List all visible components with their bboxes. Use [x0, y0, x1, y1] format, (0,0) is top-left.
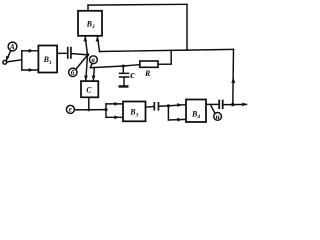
- junction dot at output: [231, 103, 234, 106]
- node v: circled letter v test point with tick to RC wire: [90, 55, 98, 68]
- wire: branch down into C block right input (arrow down): [92, 68, 96, 81]
- wire: upper arrow into B1: [22, 49, 38, 53]
- junction dot at stem and lower wire: [87, 109, 90, 112]
- svg-text:б: б: [71, 68, 75, 77]
- wire: upper arrow into B4: [168, 103, 185, 107]
- capacitor: coupling cap after B1: [67, 47, 72, 59]
- wire: upper arrow into B3: [106, 102, 123, 106]
- wire: lower arrow into B4: [168, 118, 185, 122]
- svg-text:н: н: [216, 112, 220, 121]
- wire: R right side up to feedback wire: [158, 50, 171, 64]
- node a: circled letter a (signal source label): [8, 42, 17, 51]
- resistor R: [140, 61, 158, 78]
- wire: loop vertical x=187 up to top: [186, 4, 188, 50]
- wire: node up into B2 (arrow up): [83, 36, 87, 55]
- wire: top horizontal to B2: [88, 3, 187, 6]
- wire: lower wire from node g to B3 fork: [74, 109, 106, 111]
- wire: B4 fork vertical: [167, 106, 169, 120]
- node g: circled letter g test point at lower wire start: [66, 105, 74, 114]
- wire: lower arrow into B3: [106, 115, 123, 119]
- svg-text:С: С: [86, 86, 92, 95]
- junction dot at B3 fork: [104, 108, 107, 111]
- wire: input terminal to fork: [7, 60, 22, 62]
- wire: lower arrow into B1: [22, 68, 38, 72]
- capacitor C to ground: [119, 66, 135, 85]
- node n: circled letter n test point with tick to output wire: [211, 105, 222, 121]
- wire: B1 output to coupling capacitor: [57, 52, 67, 54]
- svg-text:с: с: [130, 70, 135, 81]
- block B2: [78, 11, 102, 36]
- wire: capacitor to B4 fork: [159, 105, 168, 107]
- svg-text:R: R: [144, 69, 151, 78]
- svg-text:А: А: [9, 43, 15, 51]
- junction dot of C branch on RC wire: [122, 65, 125, 68]
- block B1: [38, 46, 57, 73]
- wire: node down into C block (arrow down): [84, 55, 88, 81]
- wire: output arrow to the right: [233, 103, 248, 107]
- wire: C block output stem down to lower wire: [88, 97, 90, 110]
- block C (sweep block): [81, 81, 98, 97]
- wire: capacitor to node junction: [72, 54, 88, 55]
- wire: B3 fork vertical: [105, 104, 107, 117]
- block B3: [123, 102, 146, 122]
- ground (chassis bar): [119, 85, 129, 88]
- wire: arrow from circle a down to input terminal: [6, 51, 11, 62]
- node b: circled letter b test point with tick to junction: [69, 56, 87, 77]
- capacitor: coupling cap after B3: [154, 102, 160, 111]
- wire: B3 output to coupling capacitor: [146, 106, 154, 109]
- wire: B4 output to coupling capacitor: [206, 103, 218, 105]
- wire: capacitor to output junction: [224, 104, 233, 106]
- input terminal (small open circle): [3, 60, 7, 64]
- block B4: [186, 100, 206, 123]
- wire: riser down into B2 top: [87, 5, 89, 11]
- wire: RC horizontal wire: [90, 65, 140, 68]
- junction dot at B4 fork: [167, 104, 170, 107]
- wire: corner down into B2 right input (arrow up): [96, 36, 100, 51]
- capacitor: coupling cap after B4: [218, 100, 223, 109]
- junction dot (main node): [86, 53, 89, 56]
- wire: fork vertical before B1: [21, 51, 23, 70]
- wire: feedback riser from output junction up (arrow up): [231, 49, 235, 104]
- wire: mid feedback horizontal to B2 right input corner: [100, 49, 234, 51]
